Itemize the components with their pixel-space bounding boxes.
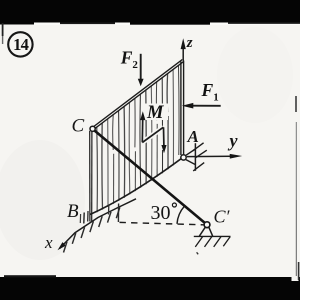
pin circle C: [90, 126, 95, 131]
page edge line right: [295, 96, 297, 112]
dashed horizontal line to C': [120, 222, 204, 224]
svg-text:M: M: [146, 103, 164, 123]
plate top edge double line C-D: [92, 60, 182, 128]
x axis shaft below edge: [60, 199, 137, 249]
pin circle C': [204, 222, 210, 228]
problem number circle 14: [8, 32, 32, 56]
svg-text:2: 2: [132, 59, 138, 71]
ground hatching below x axis: [64, 207, 120, 252]
svg-text:y: y: [228, 131, 239, 151]
svg-text:14: 14: [13, 35, 28, 54]
z axis: [182, 47, 184, 61]
pin circle A: [181, 155, 186, 160]
30 degree arc: [177, 206, 184, 224]
svg-text:z: z: [186, 35, 193, 51]
force F1 arrow: [192, 105, 221, 107]
white patch behind M: [145, 104, 168, 121]
plate bottom edge B to A (curved): [90, 158, 182, 214]
svg-text:1: 1: [213, 92, 219, 104]
svg-text:C′: C′: [214, 207, 231, 227]
rod C-C': [95, 131, 206, 224]
plate right edge double line D-A: [180, 62, 182, 156]
support at A wall, links, hatches: [194, 143, 196, 171]
ticks between edge and axis near B: [80, 204, 118, 224]
plate hatching: [97, 65, 179, 212]
x axis arrowhead: [58, 242, 66, 250]
bottom black scan bar: [0, 277, 300, 300]
page edge line left: [2, 23, 4, 36]
couple M up arrow: [141, 120, 143, 142]
svg-text:F: F: [120, 47, 133, 67]
svg-text:A: A: [187, 127, 199, 146]
svg-text:B: B: [67, 201, 79, 222]
plate left edge double line C-B: [89, 131, 91, 222]
y axis: [187, 155, 233, 157]
svg-text:F: F: [201, 80, 214, 100]
top black scan bar: [0, 0, 300, 23]
svg-text:x: x: [44, 233, 53, 252]
svg-text:30: 30: [151, 202, 171, 224]
svg-text:C: C: [72, 116, 85, 137]
couple M down arrow: [163, 127, 165, 146]
couple M lever: [142, 127, 163, 142]
support at C' legs base hatches: [199, 227, 205, 236]
force F2 arrow: [140, 54, 142, 80]
